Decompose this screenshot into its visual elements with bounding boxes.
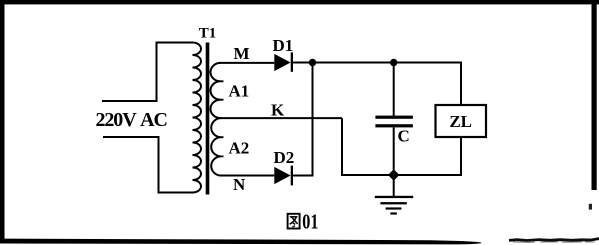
wire D1 cathode to node xyxy=(293,62,313,64)
load ZL box xyxy=(436,105,487,137)
transformer T1 primary winding xyxy=(193,43,202,193)
node dot D1 junction xyxy=(309,59,316,66)
capacitor C plates xyxy=(375,116,413,119)
capacitor C top lead xyxy=(393,63,395,116)
wire K drop xyxy=(342,118,461,175)
border frame top xyxy=(0,0,599,4)
border frame bottom xyxy=(0,239,481,245)
svg-text:K: K xyxy=(271,101,285,120)
wire M terminal xyxy=(220,62,275,64)
svg-text:M: M xyxy=(234,44,250,63)
torn edge line bottom-right xyxy=(509,238,599,241)
stray mark right margin xyxy=(589,204,592,210)
svg-text:D1: D1 xyxy=(273,36,294,55)
svg-text:C: C xyxy=(398,127,410,146)
svg-text:220V AC: 220V AC xyxy=(96,109,167,131)
capacitor C bottom lead xyxy=(393,127,395,175)
border frame right xyxy=(592,0,597,190)
svg-text:A1: A1 xyxy=(229,82,250,101)
wire N terminal xyxy=(220,175,275,177)
wire AC lower stub xyxy=(103,137,193,193)
transformer secondary winding A1 xyxy=(211,63,221,118)
svg-text:T1: T1 xyxy=(199,25,217,41)
ground bars xyxy=(375,196,413,198)
node dot capacitor top xyxy=(390,59,397,66)
wire AC upper stub xyxy=(102,43,193,102)
svg-text:D2: D2 xyxy=(274,148,295,167)
transformer T1 core xyxy=(206,43,210,195)
caption glyph 图 xyxy=(288,214,300,229)
transformer secondary winding A2 xyxy=(211,118,220,175)
svg-text:01: 01 xyxy=(302,210,318,234)
ground stem xyxy=(393,175,395,196)
wire top rail xyxy=(313,63,462,106)
node diamond ground junction xyxy=(388,169,399,180)
wire cathode bus vertical xyxy=(312,63,314,176)
svg-text:ZL: ZL xyxy=(449,112,472,131)
wire K center tap xyxy=(220,117,343,119)
wire D2 cathode to bus xyxy=(293,175,314,177)
diode D1 xyxy=(274,54,290,71)
svg-text:A2: A2 xyxy=(229,139,250,158)
border frame left xyxy=(0,0,5,243)
diode D2 xyxy=(274,167,290,184)
svg-text:N: N xyxy=(233,175,246,194)
